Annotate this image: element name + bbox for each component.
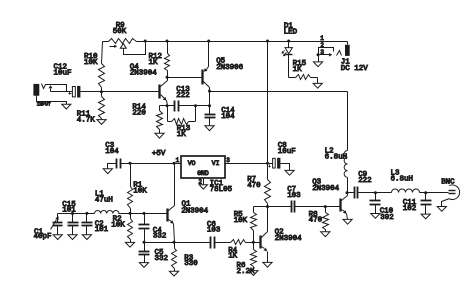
transistor Q2 2N3904	[254, 207, 268, 263]
node +5V Q1 collector junction	[173, 162, 176, 165]
label C2 101	[95, 220, 109, 234]
svg-text:2.2K: 2.2K	[237, 268, 255, 276]
node rail R12 junction	[166, 40, 169, 43]
svg-text:78L05: 78L05	[210, 186, 233, 194]
resistor R15	[289, 75, 318, 84]
label R3 330	[184, 254, 198, 268]
ground C3	[103, 169, 112, 174]
label J1 pin numbers	[320, 35, 324, 56]
label R5 10K	[234, 211, 248, 225]
svg-text:1K: 1K	[177, 131, 186, 139]
label C9 222	[358, 171, 372, 185]
label R9 50K	[113, 22, 127, 36]
label IC1 pins	[176, 157, 231, 186]
wire collector to C7	[254, 206, 292, 208]
node C13-R13 junction	[194, 104, 197, 107]
ground R11	[97, 120, 106, 125]
capacitor C3 104	[108, 159, 131, 169]
svg-text:330: 330	[184, 260, 198, 268]
wire Q1 base	[131, 213, 168, 215]
svg-text:INPUT: INPUT	[37, 102, 51, 108]
svg-text:10K: 10K	[133, 188, 147, 196]
label R11 4.7K	[77, 111, 95, 125]
label R1 10K	[133, 182, 147, 196]
ground input sleeve	[62, 104, 71, 109]
resistor R14	[157, 106, 168, 134]
svg-text:BNC: BNC	[441, 178, 455, 186]
connector BNC	[442, 185, 460, 207]
node Q5 collector junction	[208, 90, 211, 93]
svg-text:+5V: +5V	[152, 150, 166, 158]
node Q2 collector junction	[266, 205, 269, 208]
resistor R7	[265, 180, 271, 207]
node Q3 collector junction	[346, 191, 349, 194]
svg-text:104: 104	[105, 148, 119, 156]
label R6 2.2K	[237, 262, 255, 276]
svg-text:10uF: 10uF	[54, 69, 72, 77]
capacitor C15 101	[68, 214, 79, 235]
label R2 10K	[111, 216, 125, 230]
ground C14	[205, 126, 214, 131]
node rail D1 junction	[287, 40, 290, 43]
svg-text:332: 332	[155, 255, 169, 263]
transistor Q1 2N3904	[168, 164, 175, 243]
resistor R2	[128, 214, 133, 243]
resistor R12	[165, 42, 170, 78]
resistor R11	[99, 92, 105, 120]
svg-text:470: 470	[309, 217, 323, 225]
label R8 470	[309, 211, 323, 225]
wire Q5 collector feed	[210, 91, 348, 93]
ground BNC	[437, 207, 446, 212]
node R8 junction	[324, 205, 327, 208]
ground C11	[421, 214, 430, 219]
svg-text:VO: VO	[188, 160, 196, 167]
inductor L1 47uH	[58, 210, 131, 213]
ground R14	[155, 133, 164, 138]
label Q2 2N3904	[275, 229, 302, 243]
wire Q5 base	[168, 77, 202, 79]
wire +5V net	[123, 163, 182, 165]
label R15 1K	[293, 60, 307, 74]
resistor R5	[251, 207, 257, 243]
label C6 103	[207, 221, 221, 235]
label C15 101	[62, 201, 76, 215]
node C4 junction	[143, 212, 146, 215]
potentiometer R9	[103, 39, 137, 49]
ground IC1	[199, 185, 207, 189]
capacitor C6 103	[175, 237, 231, 249]
label +5V	[152, 150, 166, 158]
capacitor C13 222	[168, 101, 196, 112]
svg-text:104: 104	[221, 113, 235, 121]
label R4 1K	[228, 247, 237, 261]
node C14 junction	[208, 104, 211, 107]
capacitor C12 10uF	[69, 86, 102, 98]
label Q4 2N3904	[130, 63, 157, 77]
label C8 10uF	[278, 142, 296, 156]
node C11 junction	[424, 191, 427, 194]
label IC1 78L05	[210, 180, 233, 194]
wire C4-C5 tap	[145, 242, 175, 244]
wire R9 wiper to rail	[124, 43, 146, 55]
inductor L2 6.8uH	[344, 92, 347, 193]
svg-text:103: 103	[207, 227, 221, 235]
svg-text:LED: LED	[284, 28, 298, 36]
svg-text:1K: 1K	[149, 59, 158, 67]
svg-text:4.7K: 4.7K	[77, 117, 95, 125]
label C10 392	[380, 208, 394, 222]
label C12 10uF	[54, 64, 72, 78]
label C7 103	[287, 186, 301, 200]
svg-text:222: 222	[176, 92, 190, 100]
node rail-wiper junction	[144, 40, 147, 43]
capacitor C2 101	[82, 214, 93, 235]
svg-text:2N3906: 2N3906	[216, 64, 243, 72]
capacitor C8 10uF	[268, 158, 290, 171]
node C8 junction	[266, 162, 269, 165]
label D1 LED	[284, 22, 298, 36]
capacitor C5 332	[139, 243, 150, 263]
svg-text:103: 103	[287, 192, 301, 200]
node +5V R1 junction	[129, 162, 132, 165]
transistor Q3 2N3904	[341, 193, 348, 220]
node C4-C5 tap junction	[143, 241, 146, 244]
connector J1 DC jack	[319, 45, 350, 62]
wire top supply rail	[137, 42, 348, 45]
label C5 332	[155, 249, 169, 263]
svg-text:VI: VI	[212, 160, 220, 167]
svg-text:392: 392	[380, 214, 394, 222]
svg-text:3: 3	[320, 49, 324, 56]
label C3 104	[105, 142, 119, 156]
svg-text:10uF: 10uF	[278, 148, 296, 156]
transistor Q5 2N3906	[203, 42, 210, 92]
label R14 220	[132, 104, 146, 118]
ground C5	[139, 263, 148, 268]
capacitor C7 103	[292, 201, 341, 213]
transistor Q4 2N3904	[160, 78, 168, 106]
ground R8	[321, 232, 330, 237]
svg-text:GND: GND	[197, 170, 209, 177]
wire Q4 base	[102, 91, 159, 93]
ground R6	[249, 271, 258, 276]
resistor R13	[168, 106, 196, 125]
label C14 104	[221, 107, 235, 121]
svg-text:DC 12V: DC 12V	[341, 65, 368, 73]
svg-text:10K: 10K	[234, 217, 248, 225]
label R7 470	[247, 176, 261, 190]
node L1-C2 junction	[85, 212, 88, 215]
svg-text:6.8uH: 6.8uH	[391, 175, 414, 183]
svg-text:102: 102	[403, 205, 417, 213]
node input bias junction	[100, 90, 103, 93]
label J1 DC 12V	[341, 59, 368, 73]
label C1 40pF	[34, 228, 52, 241]
LED D1	[281, 42, 292, 78]
label R10 10K	[84, 53, 98, 67]
capacitor C9 222	[348, 187, 376, 199]
svg-text:2N3904: 2N3904	[181, 207, 208, 215]
node rail 12V branch	[266, 40, 269, 43]
ground R3	[169, 271, 178, 276]
resistor R10	[99, 42, 105, 92]
label INPUT	[37, 102, 51, 108]
svg-text:6.8uH: 6.8uH	[325, 154, 348, 162]
ground J1	[313, 62, 322, 67]
label C11 102	[403, 199, 417, 213]
label Q3 2N3904	[312, 179, 339, 193]
ground Q3 emitter	[343, 219, 352, 224]
svg-text:40pF: 40pF	[34, 233, 52, 241]
svg-text:220: 220	[132, 110, 146, 118]
svg-text:1K: 1K	[293, 66, 302, 74]
node rail Q5 emitter junction	[207, 40, 210, 43]
wire 12V vertical rail	[267, 42, 269, 180]
label L1 47uH	[95, 191, 113, 205]
ground R2	[125, 242, 134, 247]
svg-text:1K: 1K	[228, 253, 237, 261]
node L1-C15 junction	[71, 212, 74, 215]
inductor L3 6.8uH	[376, 189, 426, 192]
resistor R4	[231, 240, 254, 245]
ground C8	[285, 170, 294, 175]
svg-text:10K: 10K	[111, 222, 125, 230]
node Q2 base junction	[252, 241, 255, 244]
ground Q2 emitter	[263, 262, 272, 267]
svg-text:2N3904: 2N3904	[275, 235, 302, 243]
svg-text:2: 2	[320, 42, 324, 49]
svg-text:101: 101	[62, 207, 76, 215]
svg-text:2N3904: 2N3904	[312, 185, 339, 193]
capacitor C4 332	[139, 214, 150, 243]
wire input sleeve	[37, 96, 67, 105]
capacitor C11 102	[421, 193, 432, 215]
regulator IC1 78L05	[175, 156, 268, 185]
svg-text:3: 3	[226, 157, 230, 164]
node C10 junction	[374, 191, 377, 194]
ground C2	[82, 235, 91, 240]
svg-text:47uH: 47uH	[95, 197, 113, 205]
capacitor C1 40pF trimmer	[51, 214, 63, 235]
node Q1 emitter junction	[173, 241, 176, 244]
ground C1	[53, 235, 62, 240]
label R12 1K	[149, 53, 163, 67]
resistor R3	[172, 243, 177, 272]
label L2 6.8uH	[325, 148, 348, 162]
svg-text:2N3904: 2N3904	[130, 70, 157, 78]
node Q4 emitter junction	[166, 104, 169, 107]
label C4 332	[153, 227, 167, 241]
node J1 ground junction	[317, 53, 320, 56]
label L3 6.8uH	[391, 169, 414, 183]
label Q1 2N3904	[181, 201, 208, 216]
capacitor C10 392	[370, 193, 381, 214]
svg-text:332: 332	[153, 233, 167, 241]
wire emitter net to C14	[196, 92, 210, 106]
ground C15	[68, 235, 77, 240]
label C13 222	[176, 86, 190, 100]
svg-text:101: 101	[95, 226, 109, 234]
svg-text:1: 1	[176, 157, 180, 164]
capacitor C14 104	[205, 106, 216, 126]
svg-text:1: 1	[320, 35, 324, 42]
svg-text:470: 470	[247, 182, 261, 190]
label Q5 2N3906	[216, 58, 243, 72]
svg-text:50K: 50K	[113, 28, 127, 36]
resistor R1	[128, 164, 133, 214]
ground C10	[371, 214, 380, 219]
node R12-Q4 collector junction	[166, 76, 169, 79]
connector INPUT jack	[33, 84, 72, 96]
svg-text:222: 222	[358, 177, 372, 185]
node bias node A	[129, 212, 132, 215]
ground R15	[313, 83, 322, 88]
label R13 1K	[177, 125, 191, 139]
label BNC	[441, 178, 455, 186]
resistor R6	[251, 243, 257, 271]
wire to BNC	[426, 192, 449, 194]
svg-text:10K: 10K	[84, 59, 98, 67]
resistor R8	[323, 207, 329, 232]
